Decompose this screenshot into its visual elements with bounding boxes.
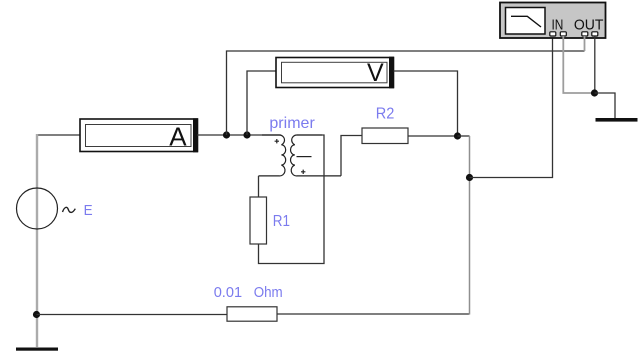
scope terminal 3 (OUT left) xyxy=(582,32,588,36)
label R2 xyxy=(376,106,395,123)
wire scope OUT-left stub (gray) xyxy=(584,36,586,51)
wire voltmeter right down to node C xyxy=(394,71,458,136)
label 0.01 Ohm xyxy=(214,284,283,301)
svg-text:R1: R1 xyxy=(273,213,290,230)
wire vertical node C to bottom (gray) xyxy=(469,136,471,315)
wire node C jog right xyxy=(458,135,470,137)
junction node bottom-left xyxy=(33,311,40,318)
ground (top right) xyxy=(596,118,638,122)
AC source E xyxy=(17,188,76,229)
transformer primary winding xyxy=(259,135,286,176)
wire ground stub bottom-left (gray) xyxy=(36,315,38,347)
wire node B up to voltmeter left xyxy=(247,71,276,135)
junction node E xyxy=(591,89,598,96)
wire scope OUT-right down to node E xyxy=(594,36,596,93)
wire R2 right to node C xyxy=(408,135,458,137)
label R1 xyxy=(273,213,290,230)
resistor 0.01 Ohm body xyxy=(227,307,277,321)
svg-text:V: V xyxy=(367,59,384,87)
scope terminal 2 (IN right) xyxy=(560,32,566,36)
bode plotter screen xyxy=(506,8,546,35)
wire bottom-left to 0.01 Ohm resistor xyxy=(37,314,228,316)
scope terminal 4 (OUT right) xyxy=(592,32,598,36)
wire node D to scope IN-left xyxy=(470,36,553,178)
wire node A up and across to scope OUT-left xyxy=(227,51,585,135)
wire R1 bottom loop to secondary top xyxy=(259,135,325,264)
label A (ammeter) xyxy=(169,122,187,152)
ground (bottom left) xyxy=(16,348,58,351)
label OUT (bode plotter output) xyxy=(574,18,604,34)
wire primary bottom down to R1 top xyxy=(258,176,260,197)
transformer secondary center tap xyxy=(297,156,312,158)
svg-text:A: A xyxy=(169,122,187,152)
svg-text:primer: primer xyxy=(269,115,315,132)
label V (voltmeter) xyxy=(367,59,384,87)
bode plotter U1 body xyxy=(500,3,606,39)
label E xyxy=(84,202,93,219)
scope terminal 1 (IN left) xyxy=(550,32,556,36)
junction node A (left dot on main wire) xyxy=(223,131,230,138)
label primer xyxy=(269,115,315,132)
junction node C xyxy=(454,132,461,139)
junction node D xyxy=(466,174,473,181)
wire ammeter right to primary top xyxy=(197,134,281,136)
plus sign secondary xyxy=(301,170,305,174)
svg-text:0.01: 0.01 xyxy=(214,284,242,301)
wire E-top to ammeter left xyxy=(37,134,80,136)
svg-text:OUT: OUT xyxy=(574,18,604,34)
wire E lead vertical (gray) xyxy=(36,134,38,315)
junction node B (right dot on main wire) xyxy=(243,131,250,138)
ammeter A body xyxy=(80,118,198,152)
resistor R2 body xyxy=(362,128,408,144)
label IN (bode plotter input) xyxy=(552,18,564,34)
wire 0.01 Ohm to right vertical xyxy=(277,313,470,315)
wire secondary bottom up to R2 left xyxy=(341,136,362,176)
svg-text:Ohm: Ohm xyxy=(254,284,283,301)
voltmeter V body xyxy=(276,57,394,89)
svg-text:E: E xyxy=(84,202,93,219)
svg-text:R2: R2 xyxy=(376,106,395,123)
resistor R1 body xyxy=(250,197,267,244)
wire node E to ground (top right) xyxy=(595,93,616,118)
transformer secondary winding xyxy=(291,135,342,176)
wire scope IN-right down to node E (gray) xyxy=(563,36,594,93)
plus sign primary xyxy=(275,139,279,143)
